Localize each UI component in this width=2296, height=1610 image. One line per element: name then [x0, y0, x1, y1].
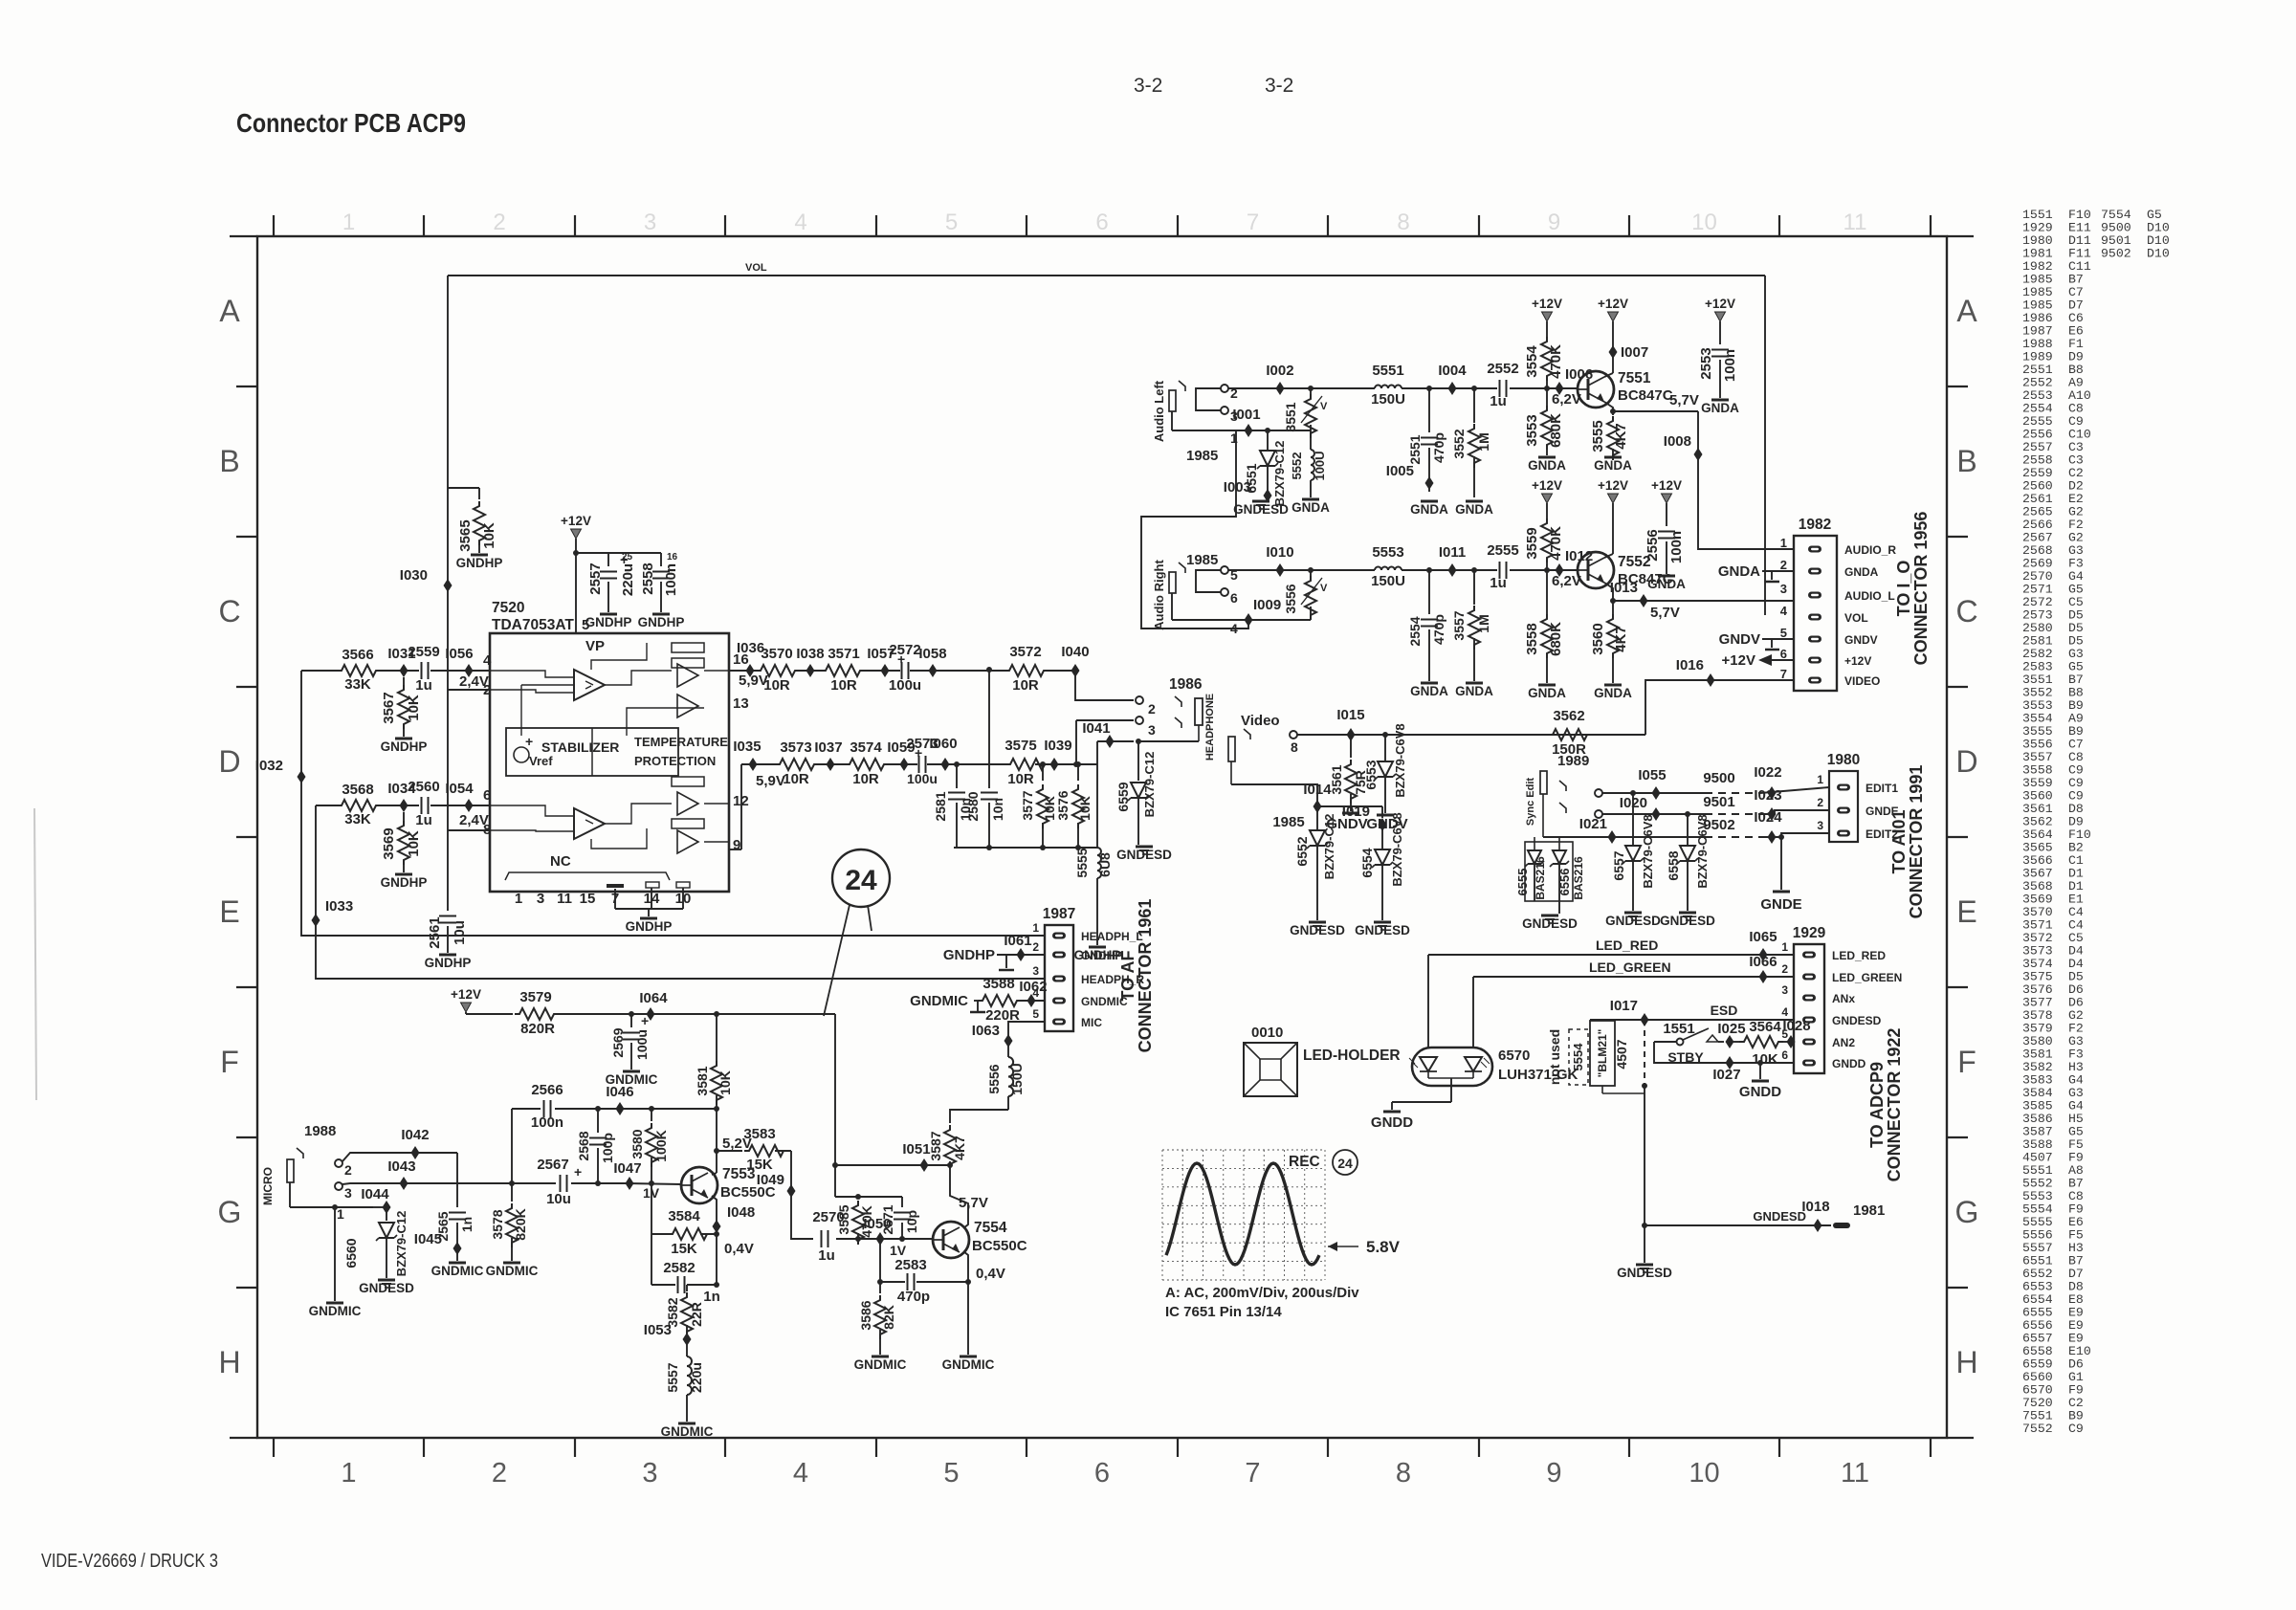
diode 6555 BAS216	[1515, 837, 1573, 901]
svg-text:3586: 3586	[858, 1300, 873, 1330]
ground GNDV under 6553	[1366, 815, 1407, 832]
svg-text:4K7: 4K7	[1613, 423, 1629, 450]
node I008	[1664, 433, 1703, 461]
oscilloscope waveform	[1166, 1163, 1319, 1265]
svg-text:H: H	[1955, 1345, 1977, 1379]
svg-text:100K: 100K	[653, 1130, 669, 1161]
resistor 3588 220R	[910, 976, 1045, 1024]
wire 5556 to 3587	[950, 1110, 1008, 1121]
svg-text:11: 11	[1843, 210, 1867, 235]
svg-text:2567: 2567	[537, 1157, 568, 1173]
svg-text:E: E	[1956, 894, 1976, 929]
node I061	[1004, 933, 1031, 961]
node I019	[1342, 804, 1387, 831]
node I017	[1610, 998, 1649, 1026]
ground GNDA under 3558	[1528, 685, 1566, 700]
resistor 3578 820K	[490, 1183, 528, 1261]
transistor 7552 BC847C	[1578, 552, 1673, 588]
feedback resistor box 2	[672, 658, 704, 668]
resistor 3558 680K	[1524, 570, 1564, 683]
svg-text:LED-HOLDER: LED-HOLDER	[1303, 1048, 1401, 1064]
svg-text:I048: I048	[727, 1204, 755, 1221]
svg-text:I054: I054	[445, 781, 474, 797]
node I009	[1245, 597, 1282, 627]
svg-text:3553: 3553	[1524, 414, 1540, 446]
svg-text:GNDESD: GNDESD	[1355, 923, 1410, 937]
node I007	[1609, 344, 1649, 361]
capacitor 2572 100u	[889, 642, 921, 694]
svg-text:GNDMIC: GNDMIC	[854, 1357, 907, 1372]
right row letters A-H	[1955, 294, 1979, 1379]
svg-text:8: 8	[1397, 210, 1409, 235]
svg-text:1u: 1u	[818, 1247, 835, 1264]
label REC	[1289, 1154, 1320, 1170]
svg-text:+: +	[915, 745, 922, 761]
svg-text:10u: 10u	[546, 1191, 571, 1207]
svg-text:5: 5	[1032, 1007, 1039, 1021]
svg-text:1V: 1V	[890, 1243, 907, 1258]
power +12V rail A3	[1705, 297, 1735, 344]
svg-text:I062: I062	[1019, 979, 1047, 995]
svg-text:D: D	[1955, 744, 1977, 779]
power +12V to pin 5	[561, 514, 605, 654]
svg-text:0,4V: 0,4V	[976, 1266, 1005, 1282]
ground GNDHP under 2558	[638, 614, 685, 629]
terminal 1981	[1833, 1202, 1885, 1228]
svg-text:100n: 100n	[1668, 531, 1685, 563]
svg-text:I045: I045	[414, 1231, 442, 1247]
svg-text:I024: I024	[1754, 809, 1782, 826]
ground GNDV under 3561	[1326, 813, 1367, 832]
LED holder 0010 icon	[1244, 1025, 1297, 1096]
transistor 7554 BC550C	[933, 1220, 1027, 1258]
svg-text:VIDE-V26669 / DRUCK 3: VIDE-V26669 / DRUCK 3	[41, 1551, 218, 1572]
frame corner ticks	[230, 236, 1974, 1438]
resistor 3566 33K	[337, 647, 381, 693]
svg-text:GNDHP: GNDHP	[425, 956, 472, 970]
svg-text:6559: 6559	[1115, 782, 1131, 811]
resistor 3555 4K7	[1590, 411, 1629, 460]
node I014	[1303, 782, 1382, 813]
svg-text:150U: 150U	[1371, 573, 1405, 589]
svg-text:I010: I010	[1266, 544, 1293, 561]
wire switch return	[1654, 1042, 1794, 1063]
svg-text:2582: 2582	[663, 1260, 695, 1276]
power +12V rail B3	[1651, 478, 1682, 526]
node I025	[1717, 1021, 1745, 1048]
IC internal wiring	[490, 643, 729, 849]
svg-text:4: 4	[1781, 1005, 1788, 1019]
svg-text:1985: 1985	[1186, 448, 1218, 464]
svg-text:AN2: AN2	[1832, 1036, 1855, 1049]
svg-text:BZX79-C12: BZX79-C12	[1272, 441, 1287, 507]
wire input row1	[301, 670, 490, 672]
capacitor 2558 100n	[640, 552, 679, 612]
svg-text:Sync Edit: Sync Edit	[1525, 778, 1536, 826]
svg-text:LED_RED: LED_RED	[1596, 937, 1658, 953]
svg-text:8: 8	[1291, 739, 1298, 755]
svg-text:3: 3	[1781, 983, 1788, 997]
node I057	[867, 646, 894, 677]
capacitor 2581 10n	[933, 761, 973, 848]
svg-text:BZX79-C12: BZX79-C12	[1142, 752, 1157, 818]
svg-text:6,2V: 6,2V	[1552, 573, 1581, 589]
ground GNDMIC mic sleeve	[309, 1303, 362, 1318]
wire audio left sleeve	[1244, 428, 1311, 433]
emitter 7552 wire	[1604, 583, 1794, 621]
wire MIC pin5	[1008, 1022, 1045, 1036]
IC pin pads 7 14 10	[607, 882, 690, 888]
svg-text:4: 4	[793, 1458, 808, 1489]
resistor 3572 10R	[1004, 644, 1049, 694]
node I053	[644, 1322, 692, 1346]
node I022	[1754, 764, 1781, 800]
capacitor 2555 1u	[1487, 542, 1518, 591]
svg-text:+12V: +12V	[1705, 297, 1735, 311]
svg-text:220u: 220u	[689, 1362, 704, 1393]
wire cap rail	[573, 550, 661, 556]
svg-text:GNDHP: GNDHP	[585, 615, 632, 629]
label not used	[1547, 1029, 1562, 1085]
svg-text:470p: 470p	[897, 1289, 930, 1305]
svg-text:11: 11	[1841, 1458, 1869, 1489]
wire VIDEO to pin7	[1711, 679, 1794, 681]
node I037	[814, 739, 842, 771]
svg-text:3: 3	[642, 1458, 657, 1489]
ground GNDA under 2551	[1410, 501, 1448, 517]
svg-text:6555: 6555	[1515, 869, 1530, 896]
label TO AF	[1118, 950, 1137, 1001]
wire 7551 emitter to AUDIO_R pin	[1698, 411, 1794, 549]
node I006	[1544, 366, 1593, 408]
capacitor 2570 1u	[812, 1209, 933, 1264]
svg-text:GNDA: GNDA	[1455, 684, 1493, 698]
label CONNECTOR 1991	[1907, 765, 1926, 919]
node I011	[1426, 544, 1477, 577]
node I001	[1232, 407, 1260, 437]
wire LED_RED	[1428, 937, 1794, 1048]
svg-text:I058: I058	[918, 646, 946, 662]
node I031	[387, 646, 415, 677]
svg-text:100u: 100u	[889, 677, 921, 694]
svg-text:"BLM21": "BLM21"	[1596, 1029, 1609, 1078]
wire audio left row	[1228, 387, 1578, 389]
svg-text:HEADPHONE: HEADPHONE	[1204, 694, 1216, 761]
svg-text:VOL: VOL	[745, 262, 767, 274]
svg-text:A: AC, 200mV/Div, 200us/Div: A: AC, 200mV/Div, 200us/Div	[1165, 1285, 1359, 1301]
svg-text:10R: 10R	[783, 771, 809, 787]
node I064	[639, 990, 668, 1021]
svg-text:3: 3	[1148, 722, 1156, 738]
ground GNDD under 6570	[1371, 1112, 1413, 1131]
svg-text:25: 25	[622, 552, 633, 562]
svg-text:3587: 3587	[928, 1131, 943, 1160]
top column ticks	[274, 215, 1931, 236]
node I028	[1782, 1018, 1810, 1048]
node I047	[613, 1160, 659, 1201]
power +12V rail B2	[1598, 478, 1628, 558]
svg-text:16: 16	[667, 552, 678, 562]
svg-text:GNDESD: GNDESD	[1617, 1266, 1672, 1280]
svg-text:3571: 3571	[828, 646, 859, 662]
svg-text:I061: I061	[1004, 933, 1031, 949]
power +12V mic rail	[451, 987, 835, 1014]
svg-text:470K: 470K	[1548, 526, 1564, 561]
wire x478 vertical	[456, 1153, 458, 1207]
svg-text:3581: 3581	[695, 1066, 710, 1095]
title Connector PCB ACP9	[236, 108, 466, 138]
node I043	[387, 1158, 415, 1190]
node I024	[1754, 809, 1782, 844]
svg-text:I022: I022	[1754, 764, 1781, 781]
callout circle 24	[824, 849, 890, 1016]
capacitor 2571 10p	[880, 1197, 919, 1242]
svg-text:470p: 470p	[1431, 432, 1446, 463]
svg-text:3559: 3559	[1524, 527, 1540, 559]
connector 1982 pins	[1780, 536, 1897, 688]
node I033	[312, 898, 354, 927]
svg-text:2583: 2583	[894, 1257, 926, 1273]
svg-text:2559: 2559	[408, 644, 439, 660]
feedback resistor box 3	[672, 777, 704, 786]
svg-text:5552: 5552	[1290, 452, 1304, 480]
wire edit2 row	[1543, 833, 1829, 837]
resistor 3579 820R	[515, 989, 559, 1037]
svg-text:MIC: MIC	[1081, 1016, 1102, 1029]
ground GNDHP under 3565	[456, 555, 503, 570]
ground GNDMIC under 5557	[661, 1423, 714, 1439]
svg-text:PROTECTION: PROTECTION	[634, 754, 716, 768]
label 9502	[1703, 817, 1734, 833]
resistor 3569 10K	[381, 812, 422, 872]
svg-text:10R: 10R	[1012, 677, 1039, 694]
svg-text:I041: I041	[1082, 720, 1110, 737]
svg-text:+12V: +12V	[1722, 652, 1755, 669]
svg-text:F: F	[1957, 1045, 1976, 1079]
svg-text:150U: 150U	[1371, 391, 1405, 408]
svg-text:3: 3	[537, 891, 544, 907]
svg-text:2581: 2581	[933, 791, 948, 821]
svg-text:100p: 100p	[600, 1133, 615, 1163]
node I041	[1082, 720, 1134, 848]
svg-text:Video: Video	[1241, 713, 1280, 729]
wire VOL to connector pin 4	[1764, 276, 1766, 615]
svg-text:5.8V: 5.8V	[1366, 1238, 1401, 1256]
power +12V at pin6	[1722, 652, 1794, 669]
ground GNDHP under IC pins	[615, 888, 683, 934]
svg-text:LED_GREEN: LED_GREEN	[1832, 971, 1902, 984]
svg-text:I049: I049	[757, 1172, 784, 1188]
svg-text:AUDIO_L: AUDIO_L	[1844, 589, 1895, 603]
svg-text:1987: 1987	[1043, 906, 1075, 922]
svg-text:680K: 680K	[1548, 413, 1564, 448]
node I035	[733, 739, 784, 789]
svg-text:10p: 10p	[904, 1210, 919, 1233]
svg-text:3552: 3552	[1451, 429, 1467, 458]
wire video sleeve	[1231, 784, 1317, 830]
svg-text:GNDMIC: GNDMIC	[309, 1304, 362, 1318]
svg-text:BAS216: BAS216	[1572, 856, 1585, 900]
svg-text:I055: I055	[1638, 767, 1666, 783]
inductor 5557 220u	[665, 1339, 704, 1422]
svg-text:7: 7	[1780, 667, 1787, 681]
svg-text:1929: 1929	[1793, 925, 1826, 941]
svg-text:1u: 1u	[415, 677, 432, 694]
node I030	[400, 567, 453, 592]
svg-text:150U: 150U	[1009, 1063, 1025, 1094]
svg-text:EDIT1: EDIT1	[1865, 782, 1898, 795]
svg-text:6: 6	[1095, 210, 1108, 235]
svg-text:I032: I032	[255, 758, 283, 774]
svg-text:6570: 6570	[1498, 1048, 1530, 1064]
svg-text:2: 2	[1032, 940, 1039, 954]
svg-text:3554: 3554	[1524, 345, 1540, 378]
svg-text:22R: 22R	[689, 1302, 704, 1327]
svg-text:1n: 1n	[459, 1217, 475, 1232]
emitter 7551 wire	[1604, 392, 1699, 414]
svg-text:6: 6	[1780, 647, 1787, 661]
svg-text:I023: I023	[1754, 787, 1781, 804]
resistor 3573 10R	[775, 739, 819, 787]
svg-text:7: 7	[1247, 210, 1259, 235]
svg-text:I027: I027	[1712, 1067, 1740, 1083]
svg-text:1: 1	[1817, 773, 1823, 786]
svg-text:1: 1	[337, 1206, 344, 1222]
svg-text:GNDA: GNDA	[1594, 458, 1632, 473]
svg-text:0,4V: 0,4V	[724, 1241, 754, 1257]
resistor 3570 10R	[756, 646, 800, 694]
svg-text:220u: 220u	[620, 563, 636, 596]
svg-text:I011: I011	[1439, 544, 1466, 561]
diode 6551 BZX79-C12	[1224, 430, 1287, 506]
svg-text:BZX79-C6V8: BZX79-C6V8	[1641, 814, 1655, 888]
svg-text:10K: 10K	[1752, 1051, 1778, 1068]
svg-text:TO I_O: TO I_O	[1894, 561, 1913, 617]
svg-text:GNDHP: GNDHP	[456, 556, 503, 570]
svg-text:I066: I066	[1749, 954, 1777, 970]
svg-text:3568: 3568	[342, 782, 373, 798]
svg-text:3569: 3569	[381, 827, 397, 859]
page number 3-2 right	[1265, 75, 1293, 97]
resistor 3562 150R	[1492, 708, 1645, 758]
node I058	[918, 646, 946, 677]
node I045	[414, 1231, 462, 1261]
svg-text:BC847C: BC847C	[1618, 387, 1673, 404]
capacitor 2561 10u	[427, 916, 468, 954]
svg-text:1M: 1M	[1476, 614, 1491, 632]
svg-text:+12V: +12V	[1844, 654, 1871, 668]
resistor 3567 10K	[381, 677, 422, 737]
node I048	[713, 1204, 756, 1257]
svg-text:3575: 3575	[1004, 738, 1036, 754]
label CONNECTOR 1961	[1136, 899, 1155, 1053]
svg-text:A: A	[1956, 294, 1977, 328]
node I054	[445, 781, 491, 812]
svg-text:1551: 1551	[1663, 1021, 1694, 1037]
svg-text:GNDMIC: GNDMIC	[486, 1264, 539, 1278]
node I013	[1610, 580, 1648, 607]
resistor 3581 10K	[711, 1011, 722, 1109]
svg-text:I001: I001	[1232, 407, 1260, 423]
audio right jack 1985	[1152, 552, 1244, 636]
svg-text:I060: I060	[929, 736, 957, 752]
node I050	[863, 1216, 906, 1258]
resistor 3552 1M	[1451, 388, 1491, 497]
svg-text:24: 24	[845, 865, 877, 896]
svg-text:100n: 100n	[663, 563, 679, 596]
resistor 3586 82K	[858, 1279, 896, 1355]
svg-text:+12V: +12V	[1532, 478, 1562, 493]
ground GNDV at pin5	[1719, 631, 1794, 650]
svg-text:I015: I015	[1336, 707, 1364, 723]
scope caption line1	[1165, 1285, 1359, 1301]
svg-text:10K: 10K	[481, 522, 497, 549]
svg-text:10: 10	[1691, 210, 1717, 235]
wire GNDD tap	[1757, 1060, 1763, 1079]
diode 6557 BZX79-C6V8	[1611, 790, 1655, 911]
svg-text:7520: 7520	[492, 600, 524, 616]
svg-text:CONNECTOR 1961: CONNECTOR 1961	[1136, 899, 1155, 1053]
svg-text:I043: I043	[387, 1158, 415, 1175]
resistor 3577 10K	[1020, 764, 1057, 848]
pin 16 labels	[733, 640, 768, 689]
node I034	[387, 781, 416, 812]
node I066	[1749, 954, 1777, 983]
svg-text:I033: I033	[325, 898, 353, 915]
svg-text:5551: 5551	[1372, 363, 1403, 379]
svg-text:3558: 3558	[1524, 623, 1540, 654]
resistor 3585 470K	[836, 1194, 874, 1245]
svg-text:5554: 5554	[1571, 1043, 1585, 1071]
power +12V rail B1	[1532, 478, 1562, 518]
svg-text:6U8: 6U8	[1097, 852, 1113, 877]
svg-text:9: 9	[1548, 210, 1560, 235]
wire pin3 to jack	[1073, 720, 1134, 767]
svg-text:6556: 6556	[1557, 869, 1572, 896]
svg-text:GNDA: GNDA	[1701, 401, 1739, 415]
svg-text:3560: 3560	[1590, 623, 1606, 654]
amplifier input stage 2	[574, 808, 605, 839]
scan artifact left edge	[34, 808, 36, 1100]
svg-text:+: +	[525, 734, 533, 749]
scope caption line2	[1165, 1304, 1282, 1320]
ground GNDA under 3552	[1455, 501, 1493, 517]
node I059	[887, 739, 915, 771]
svg-text:0010: 0010	[1251, 1025, 1283, 1041]
svg-text:GNDA: GNDA	[1410, 684, 1448, 698]
svg-text:4K7: 4K7	[952, 1136, 967, 1160]
svg-text:15: 15	[580, 891, 596, 907]
resistor 3576 10K	[1055, 761, 1093, 848]
label 5.8V arrow	[1328, 1238, 1401, 1256]
svg-text:LED_GREEN: LED_GREEN	[1589, 959, 1671, 975]
svg-text:VIDEO: VIDEO	[1844, 674, 1880, 688]
resistor 3553 680K	[1524, 388, 1564, 455]
svg-text:1u: 1u	[1490, 575, 1507, 591]
amplifier output stage 3	[677, 792, 698, 815]
svg-text:2: 2	[492, 1458, 507, 1489]
inductor 5553 150U	[1371, 544, 1405, 589]
resistor 4507	[1614, 1039, 1629, 1069]
svg-text:BZX79-C12: BZX79-C12	[1322, 814, 1336, 880]
pin 9 12 13 labels	[733, 695, 749, 853]
svg-text:I017: I017	[1610, 998, 1638, 1014]
resistor 3564 10K	[1733, 1019, 1794, 1068]
wire 7553 collector	[712, 1106, 719, 1175]
resistor 3571 10R	[821, 646, 865, 694]
svg-text:1: 1	[342, 210, 355, 235]
svg-text:10K: 10K	[406, 830, 422, 857]
